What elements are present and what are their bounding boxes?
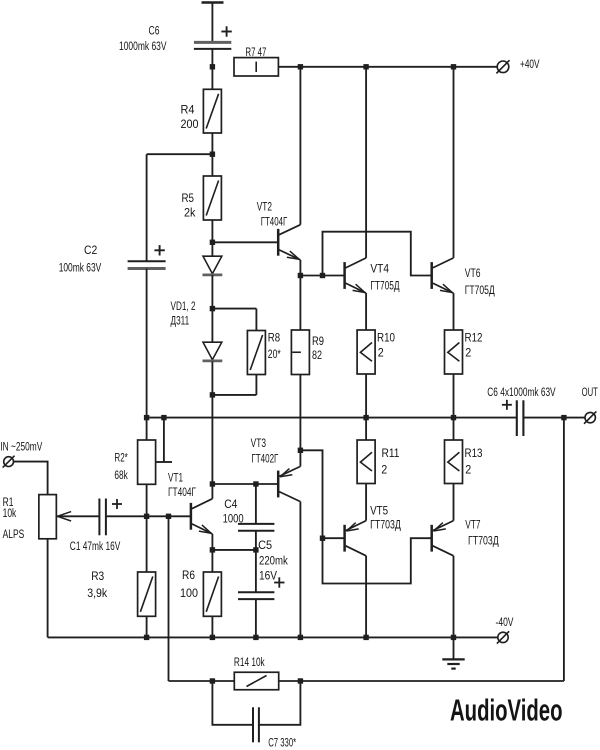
label R9	[312, 334, 324, 348]
label R5	[182, 191, 195, 205]
wire: R5 bottom to VD1	[211, 220, 213, 256]
wire: R14 to OUT branch	[279, 418, 564, 681]
junction C4/C5 tap	[253, 547, 258, 552]
svg-text:VT6: VT6	[465, 266, 481, 280]
junction VT1 emitter / R6 / C4-C5 tap	[210, 547, 215, 552]
wire: C6 to R4 with R7 tap	[211, 49, 213, 89]
svg-text:C6: C6	[149, 23, 160, 37]
svg-text:+40V: +40V	[520, 57, 540, 71]
svg-text:2: 2	[465, 346, 471, 360]
wire: VT7 collector to -40V rail	[453, 556, 455, 638]
terminal OUT	[584, 411, 596, 423]
wire: C2 bottom to mid rail	[146, 269, 148, 418]
junction +40V rail / VT6 collector	[451, 64, 456, 69]
transistor VT2	[278, 225, 300, 260]
label R4 value 200	[181, 117, 199, 131]
diode VD2	[203, 342, 223, 361]
wire: C6 to OUT terminal	[523, 417, 584, 419]
label R3 value 3,9k	[87, 586, 108, 600]
wire: VT1 collector up to bias node	[211, 484, 213, 499]
wire: VD2 cathode down to VT1 collector node	[211, 361, 213, 484]
wire: output mid rail	[147, 417, 516, 419]
svg-text:16V: 16V	[259, 569, 278, 583]
label R5 value 2k	[184, 205, 196, 219]
junction VT4 base jumper	[320, 273, 325, 278]
label C6	[149, 23, 160, 37]
wire: mid rail to R11	[365, 418, 367, 440]
transistor VT7	[432, 521, 454, 556]
wire: VT1 emitter to R6	[211, 550, 213, 572]
polarity + of C6 top	[221, 26, 231, 36]
wire: lower driver node to VT5 base	[300, 450, 344, 538]
label R2 value 68k	[114, 468, 128, 482]
wire: VT4 emitter to R10	[365, 293, 367, 330]
label VT2	[257, 199, 272, 213]
transistor VT4	[345, 258, 367, 293]
resistor R8	[247, 331, 265, 375]
wire: bias node to VT3 base	[212, 483, 278, 485]
wire: tap to C5	[255, 550, 257, 592]
svg-text:R4: R4	[181, 102, 195, 116]
label R14 10k	[234, 655, 265, 669]
label R9 value 82	[312, 348, 322, 362]
junction upper driver node	[298, 273, 303, 278]
svg-text:-40V: -40V	[496, 615, 515, 629]
label R11	[382, 446, 400, 460]
label R8 value 20*	[268, 347, 281, 361]
junction mid rail / R12-R13	[451, 415, 456, 420]
wire: IN to R1 top	[13, 462, 47, 495]
svg-text:R8: R8	[268, 331, 281, 345]
svg-text:AudioVideo: AudioVideo	[450, 693, 563, 727]
transistor VT5	[345, 521, 367, 556]
svg-text:2: 2	[381, 463, 387, 477]
wire: VD1 to VD2 segment	[211, 275, 213, 342]
wire: R1 bottom to -40V rail	[47, 539, 49, 638]
wire: VT1 emitter down	[211, 534, 213, 550]
junction feedback/C7 right	[298, 678, 303, 683]
label C5	[258, 538, 272, 552]
svg-text:R3: R3	[91, 569, 104, 583]
junction +40V rail / VT4 collector	[363, 64, 368, 69]
capacitor C5 (220mk 16V)	[238, 592, 274, 599]
svg-text:10k: 10k	[3, 506, 17, 520]
resistor R7	[234, 58, 278, 76]
wire: R11 to VT5 emitter	[365, 484, 367, 521]
svg-text:ГТ404Г: ГТ404Г	[168, 485, 196, 499]
svg-text:C5: C5	[258, 538, 272, 552]
capacitor C6 (top, 1000mk 63V)	[194, 42, 231, 49]
svg-text:1000mk 63V: 1000mk 63V	[119, 39, 167, 53]
label VT3 type	[251, 451, 278, 465]
svg-text:R10: R10	[377, 331, 395, 345]
svg-text:82: 82	[312, 348, 322, 362]
svg-text:2: 2	[465, 463, 471, 477]
label VT4 type	[370, 279, 400, 293]
svg-text:2k: 2k	[184, 205, 196, 219]
wire: R6 to -40V rail	[211, 616, 213, 637]
wire: tap to R8 top	[212, 309, 256, 331]
svg-text:ГТ703Д: ГТ703Д	[370, 518, 401, 532]
svg-text:200: 200	[181, 117, 199, 131]
transistor VT1	[191, 499, 213, 534]
transistor VT3	[278, 466, 300, 501]
svg-text:VT3: VT3	[251, 436, 267, 450]
wire: VT2 base wire	[212, 241, 278, 243]
terminal -40V	[497, 631, 509, 643]
wire: -40V rail	[48, 636, 498, 638]
label R13 value 2	[465, 463, 471, 477]
resistor R14	[234, 672, 278, 690]
wire: mid rail to R2 top	[146, 418, 148, 440]
label C1 47mk 16V	[70, 539, 121, 553]
capacitor C6 (output, 4x1000mk 63V)	[517, 400, 524, 436]
junction VD2 cathode / R8 bottom tap	[210, 392, 215, 397]
label R1	[3, 495, 14, 509]
label R6	[182, 568, 195, 582]
resistor R13	[445, 440, 463, 484]
junction -40V/VT5 collector	[363, 635, 368, 640]
label C7 330*	[268, 735, 296, 749]
svg-text:C4: C4	[224, 497, 237, 511]
diode VD1	[203, 256, 223, 275]
junction mid rail / R10-R11	[363, 415, 368, 420]
resistor R5	[203, 176, 221, 220]
svg-text:OUT: OUT	[582, 385, 598, 399]
wire: C5 to -40V rail	[255, 599, 257, 637]
svg-text:68k: 68k	[114, 468, 128, 482]
wire: node to R3	[146, 516, 148, 572]
ground	[442, 637, 464, 668]
wire: C1 to VT1 base	[106, 515, 191, 517]
wire: R4 bottom to R5 top	[211, 133, 213, 176]
label VT3	[251, 436, 267, 450]
label VT5 type	[370, 518, 401, 532]
label R2*	[114, 451, 128, 465]
svg-text:VT2: VT2	[257, 199, 272, 213]
wire: jumper to VT6 base	[323, 232, 432, 276]
svg-text:VT1: VT1	[168, 471, 183, 485]
polarity + of C2	[154, 245, 164, 255]
wire: VT5 collector to -40V rail	[365, 556, 367, 638]
wire: VT1 emitter to tap	[212, 549, 256, 551]
junction feedback/C7 left	[210, 678, 215, 683]
label R4	[181, 102, 195, 116]
svg-text:20*: 20*	[268, 347, 281, 361]
svg-text:C7 330*: C7 330*	[268, 735, 296, 749]
svg-text:ALPS: ALPS	[3, 527, 25, 541]
junction -40V/VT3 collector	[298, 635, 303, 640]
svg-text:VT4: VT4	[370, 261, 389, 275]
wire: node down to R9	[299, 276, 301, 331]
svg-text:220mk: 220mk	[259, 553, 288, 567]
label VD1, 2	[171, 299, 196, 313]
junction mid rail / C2-R2	[144, 415, 149, 420]
junction OUT / feedback branch	[561, 415, 566, 420]
label R7 47	[245, 45, 266, 59]
svg-text:ГТ705Д: ГТ705Д	[370, 279, 400, 293]
label R1 value 10k	[3, 506, 17, 520]
label C4 value 1000	[223, 512, 244, 526]
label VT5	[370, 504, 388, 518]
svg-text:R11: R11	[382, 446, 400, 460]
label VT7 type	[468, 533, 499, 547]
resistor R2 (select)	[138, 440, 156, 484]
wire: jumper to VT7 base	[323, 538, 432, 583]
label R12 value 2	[465, 346, 471, 360]
wire: node to VT4 base	[300, 275, 344, 277]
junction mid rail / R2 wiper	[161, 415, 166, 420]
svg-text:R6: R6	[182, 568, 195, 582]
svg-text:VT5: VT5	[370, 504, 388, 518]
wiper of R2	[156, 418, 172, 462]
capacitor C4 (1000)	[238, 524, 274, 531]
wire: R3 to -40V rail	[146, 616, 148, 637]
capacitor C1 (47mk 16V)	[99, 499, 106, 536]
junction VD1 cathode / R8 top tap	[210, 306, 215, 311]
svg-text:ГТ703Д: ГТ703Д	[468, 533, 499, 547]
svg-text:R2*: R2*	[114, 451, 128, 465]
junction C1/R2/R3 node	[144, 514, 149, 519]
resistor R9	[291, 330, 309, 375]
svg-text:3,9k: 3,9k	[87, 586, 108, 600]
label VT4	[370, 261, 389, 275]
label R3	[91, 569, 104, 583]
wire: R12 to mid rail	[453, 374, 455, 418]
wire: VT2 emitter to upper base node	[299, 260, 301, 276]
wire: R9 bottom to lower driver node	[299, 375, 301, 451]
label VT1	[168, 471, 183, 485]
svg-text:ГТ404Г: ГТ404Г	[261, 215, 288, 229]
label VT1 type	[168, 485, 196, 499]
junction -40V/VT7 collector and ground	[451, 635, 456, 640]
svg-text:ГТ705Д: ГТ705Д	[465, 283, 495, 297]
svg-text:100mk 63V: 100mk 63V	[59, 260, 102, 274]
svg-text:C2: C2	[84, 243, 97, 257]
label C5 value 16V	[259, 569, 278, 583]
svg-text:VD1, 2: VD1, 2	[171, 299, 196, 313]
resistor R10	[357, 330, 375, 374]
wire: feedback vertical to VT1 base	[168, 516, 170, 681]
label R13	[465, 446, 483, 460]
svg-text:1000: 1000	[223, 512, 244, 526]
junction -40V/R3	[144, 635, 149, 640]
svg-text:IN ~250mV: IN ~250mV	[0, 439, 43, 453]
junction -40V/C5	[253, 635, 258, 640]
svg-text:R5: R5	[182, 191, 195, 205]
label C6 value	[119, 39, 167, 53]
svg-text:C6 4x1000mk 63V: C6 4x1000mk 63V	[487, 385, 556, 399]
transistor VT6	[432, 258, 454, 293]
junction lower driver node	[298, 448, 303, 453]
junction C4 top	[253, 481, 258, 486]
wire: supply stub above C6	[202, 3, 224, 43]
polarity + of C5	[274, 577, 284, 587]
wire: VT3 collector to -40V rail	[299, 502, 301, 638]
junction +40V rail / VT2 collector	[298, 64, 303, 69]
resistor R6	[203, 572, 221, 616]
junction VT1 base / feedback	[166, 514, 171, 519]
wire: VT6 collector to +40V rail	[453, 67, 455, 258]
wire: VT2 collector to +40V rail	[299, 67, 301, 225]
resistor R4	[203, 89, 221, 133]
resistor R3	[138, 572, 156, 616]
svg-text:R12: R12	[465, 331, 483, 345]
label C4	[224, 497, 237, 511]
wiper arrow of R1	[57, 512, 100, 521]
label R10	[377, 331, 395, 345]
wire: R2 bottom to C1 node	[146, 484, 148, 516]
capacitor C2 (100mk 63V)	[128, 261, 166, 268]
svg-text:VT7: VT7	[465, 517, 480, 531]
polarity + of output C6	[502, 400, 512, 410]
label VT7	[465, 517, 480, 531]
wire: feedback left segment	[169, 680, 235, 682]
wire: C4 bottom to emitter tap	[255, 531, 257, 550]
wire: VT3 emitter up to lower driver node	[299, 450, 301, 466]
label IN ~250mV	[0, 439, 43, 453]
svg-text:Д311: Д311	[171, 314, 190, 328]
junction R4/R5/C2 tap	[210, 152, 215, 157]
label C2 value	[59, 260, 102, 274]
svg-text:ГТ402Г: ГТ402Г	[251, 451, 278, 465]
svg-text:R14 10k: R14 10k	[234, 655, 265, 669]
label C5 value 220mk	[259, 553, 288, 567]
label R1 ALPS	[3, 527, 25, 541]
svg-text:C1 47mk 16V: C1 47mk 16V	[70, 539, 121, 553]
junction -40V/R6	[210, 635, 215, 640]
label R10 value 2	[378, 346, 384, 360]
svg-text:R9: R9	[312, 334, 324, 348]
terminal IN	[3, 456, 15, 468]
wire: VT6 emitter to R12	[453, 293, 455, 330]
junction VT5 base jumper	[320, 536, 325, 541]
label C6 4x1000mk 63V	[487, 385, 556, 399]
potentiometer R1	[39, 495, 57, 539]
svg-text:R13: R13	[465, 446, 483, 460]
label VT6 type	[465, 283, 495, 297]
wire: C4 top lead	[255, 484, 257, 524]
junction C6/R7/R4	[210, 64, 215, 69]
wire: R8 bottom tap	[212, 375, 256, 395]
label VT2 type	[261, 215, 288, 229]
wire: mid rail to R13	[453, 418, 455, 440]
label R11 value 2	[381, 463, 387, 477]
wire: VT4 collector to +40V rail	[365, 67, 367, 258]
wire: R10 to mid rail	[365, 374, 367, 418]
label C2	[84, 243, 97, 257]
svg-text:R7 47: R7 47	[245, 45, 266, 59]
junction VT2 base node	[210, 240, 215, 245]
svg-text:2: 2	[378, 346, 384, 360]
terminal +40V	[496, 60, 509, 73]
wire: R7 right to +40V rail	[278, 66, 497, 68]
polarity + of C1	[112, 499, 122, 509]
svg-text:100: 100	[180, 586, 198, 600]
wire: tap to C2 branch	[147, 154, 213, 261]
resistor R11	[357, 440, 375, 484]
resistor R12	[445, 330, 463, 374]
label VT6	[465, 266, 481, 280]
label D311	[171, 314, 190, 328]
capacitor C7 (330*)	[212, 681, 300, 742]
wire: R13 to VT7 emitter	[453, 484, 455, 521]
label R12	[465, 331, 483, 345]
label R6 value 100	[180, 586, 198, 600]
junction VT1 collector / VT3 base / bias chain	[210, 481, 215, 486]
logo AudioVideo	[450, 693, 563, 727]
label -40V	[496, 615, 515, 629]
label +40V	[520, 57, 540, 71]
label OUT	[582, 385, 598, 399]
label R8	[268, 331, 281, 345]
